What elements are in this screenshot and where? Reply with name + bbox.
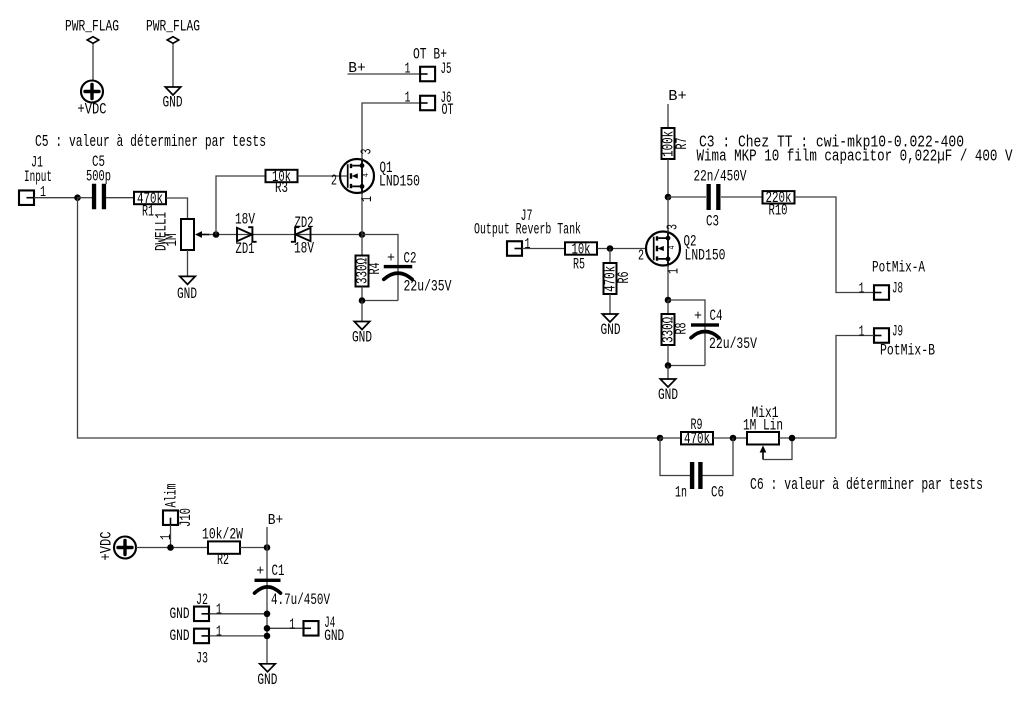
svg-text:1: 1	[40, 185, 46, 201]
svg-text:1: 1	[216, 603, 222, 619]
svg-text:R9: R9	[691, 416, 703, 434]
svg-text:+VDC: +VDC	[78, 100, 107, 118]
svg-text:Input: Input	[24, 168, 52, 186]
svg-text:1: 1	[859, 325, 865, 341]
svg-text:GND: GND	[601, 321, 621, 339]
svg-text:R3: R3	[275, 179, 288, 197]
svg-text:GND: GND	[324, 627, 344, 645]
svg-text:C5 : valeur à déterminer par t: C5 : valeur à déterminer par tests	[35, 133, 266, 152]
svg-text:+: +	[387, 250, 395, 266]
svg-text:J2: J2	[196, 591, 208, 609]
svg-text:Wima MKP 10 film capacitor 0,0: Wima MKP 10 film capacitor 0,022µF / 400…	[697, 147, 1014, 166]
svg-text:1: 1	[159, 534, 175, 540]
svg-text:1: 1	[405, 62, 411, 78]
svg-text:4: 4	[667, 246, 677, 250]
svg-text:22u/35V: 22u/35V	[709, 335, 758, 353]
svg-text:R2: R2	[217, 551, 229, 569]
svg-text:OT: OT	[442, 101, 454, 119]
svg-text:PotMix-A: PotMix-A	[872, 258, 925, 276]
svg-text:+: +	[694, 308, 702, 324]
svg-text:22n/450V: 22n/450V	[694, 167, 747, 185]
svg-text:R7: R7	[673, 138, 691, 150]
svg-text:GND: GND	[170, 605, 190, 623]
svg-text:LND150: LND150	[685, 246, 726, 264]
svg-text:GND: GND	[658, 386, 678, 404]
svg-text:PotMix-B: PotMix-B	[880, 341, 935, 359]
svg-text:1: 1	[216, 625, 222, 641]
svg-text:PWR_FLAG: PWR_FLAG	[65, 17, 119, 35]
svg-text:GND: GND	[177, 285, 197, 303]
svg-text:Alim: Alim	[162, 484, 180, 508]
svg-text:1M Lin: 1M Lin	[743, 416, 783, 434]
svg-text:3: 3	[666, 224, 682, 230]
svg-text:C6: C6	[711, 483, 724, 501]
svg-text:PWR_FLAG: PWR_FLAG	[146, 17, 200, 35]
svg-text:10k/2W: 10k/2W	[202, 525, 244, 543]
svg-text:4: 4	[361, 173, 371, 177]
svg-text:R4: R4	[366, 263, 384, 275]
svg-text:R10: R10	[769, 201, 788, 219]
svg-text:C3: C3	[706, 212, 719, 230]
svg-text:B+: B+	[668, 88, 687, 105]
svg-text:ZD1: ZD1	[236, 240, 255, 258]
svg-text:Output Reverb Tank: Output Reverb Tank	[474, 220, 581, 238]
svg-text:18V: 18V	[294, 239, 314, 257]
svg-text:R8: R8	[672, 323, 690, 335]
svg-text:1: 1	[360, 196, 376, 202]
svg-text:22u/35V: 22u/35V	[404, 277, 453, 295]
svg-text:J3: J3	[196, 649, 208, 667]
svg-text:J8: J8	[892, 279, 903, 297]
svg-text:GND: GND	[257, 671, 277, 689]
svg-text:500p: 500p	[86, 167, 111, 185]
svg-text:GND: GND	[163, 94, 183, 112]
svg-text:1: 1	[859, 282, 865, 298]
svg-text:B+: B+	[268, 512, 284, 529]
svg-text:2: 2	[638, 249, 644, 265]
svg-text:3: 3	[360, 149, 376, 155]
svg-text:J5: J5	[441, 60, 452, 78]
svg-text:4.7u/450V: 4.7u/450V	[271, 591, 330, 609]
svg-text:C1: C1	[272, 562, 285, 580]
svg-text:J9: J9	[892, 322, 903, 340]
svg-text:C4: C4	[710, 307, 723, 325]
svg-text:1n: 1n	[675, 483, 687, 501]
svg-text:1M: 1M	[163, 234, 181, 247]
svg-text:B+: B+	[348, 60, 366, 77]
svg-text:GND: GND	[170, 627, 190, 645]
svg-text:ZD2: ZD2	[295, 214, 314, 232]
svg-text:C2: C2	[404, 249, 417, 267]
svg-text:J10: J10	[177, 508, 195, 527]
svg-text:1: 1	[667, 268, 683, 274]
svg-text:1: 1	[405, 91, 411, 107]
svg-text:LND150: LND150	[379, 172, 420, 190]
svg-text:GND: GND	[352, 328, 372, 346]
svg-text:+VDC: +VDC	[97, 532, 115, 561]
svg-text:2: 2	[331, 174, 337, 190]
svg-text:C6 : valeur à déterminer par t: C6 : valeur à déterminer par tests	[750, 476, 983, 495]
svg-text:18V: 18V	[235, 210, 255, 228]
svg-text:+: +	[256, 564, 264, 580]
svg-text:1: 1	[289, 618, 295, 634]
svg-text:R5: R5	[573, 255, 585, 273]
svg-text:R6: R6	[615, 272, 633, 284]
svg-text:1: 1	[525, 237, 531, 253]
